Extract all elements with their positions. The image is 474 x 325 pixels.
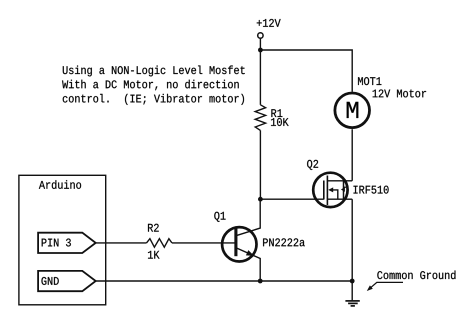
ground symbol	[345, 281, 359, 306]
motor MOT1 12V Motor	[335, 77, 426, 127]
wire motor bottom to Q2 drain	[351, 129, 353, 181]
node Common Ground callout	[367, 271, 456, 292]
wire from +12V terminal down to rail junction	[259, 39, 261, 50]
wire +12V rail to motor branch	[260, 50, 352, 92]
Arduino box	[19, 175, 106, 304]
wire gate lead from collector junction to Q2 gate	[260, 198, 323, 200]
junction at Q2 source / ground rail	[350, 279, 355, 284]
transistor Q2 MOSFET IRF510	[307, 160, 388, 207]
node +12V terminal	[257, 19, 281, 38]
annotation note text	[62, 66, 245, 105]
port GND	[38, 271, 96, 291]
port PIN 3	[38, 233, 96, 253]
resistor R1 10K	[255, 50, 288, 199]
transistor Q1 PN2222a	[214, 199, 304, 281]
junction at R1 / Q1 collector / Q2 gate	[258, 197, 263, 202]
wire R2 to Q1 base	[172, 242, 235, 244]
resistor R2 1K	[147, 224, 172, 259]
wire PIN 3 port to R2	[96, 242, 147, 244]
wire ground rail from GND port to Q2 source column	[96, 280, 353, 282]
junction at +12V rail	[258, 48, 263, 53]
junction at Q1 emitter / ground rail	[258, 279, 263, 284]
wire Q2 source down to ground rail	[351, 199, 353, 281]
